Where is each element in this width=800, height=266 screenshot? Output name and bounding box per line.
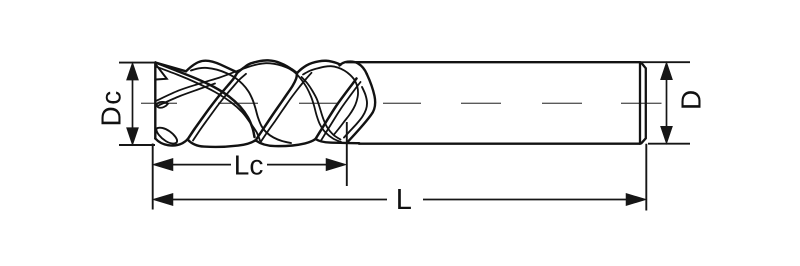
- gash triangle at left end: [156, 64, 167, 79]
- bottom-left oval lip gash: [156, 128, 177, 144]
- flute back edge pair from corner (inner): [156, 67, 260, 141]
- flute section silhouette: [155, 61, 375, 147]
- runout tail down to bottom: [347, 74, 375, 142]
- svg-text:L: L: [396, 184, 412, 216]
- long land line partner: [159, 84, 216, 106]
- long land line under crest 2 descending to cusp: [157, 63, 342, 142]
- dimension Lc: arrow line: [155, 159, 345, 170]
- bottom scallop arc 2: [188, 139, 256, 147]
- dimension Dc: extension lines: [119, 63, 155, 145]
- flute helix curves: [155, 60, 367, 143]
- rising band 4 outer: [316, 79, 357, 140]
- gash teardrop curl: [157, 102, 168, 108]
- land descent partner at cusp 3: [302, 77, 341, 140]
- bottom scallop arc 4: [316, 139, 360, 143]
- shank top edge: [347, 61, 641, 63]
- dimension Dc: double arrow: [127, 64, 137, 144]
- shank bottom edge: [359, 143, 640, 145]
- dimension L: arrow line: [155, 194, 645, 205]
- flute back edge pair from corner (outer): [155, 63, 254, 138]
- rising band 2 outer: [188, 73, 238, 140]
- crest 2 arc: [237, 60, 297, 73]
- rising band 3 inner: [261, 73, 312, 142]
- crest 1 arc: [186, 61, 238, 73]
- L right extension line: [645, 144, 647, 211]
- dimension D: extension lines: [641, 62, 690, 144]
- centerline (dashed axis): [141, 102, 662, 104]
- dimension D: double arrow: [661, 64, 671, 143]
- Lc right extension line: [346, 122, 348, 186]
- rising band 4 inner: [321, 82, 361, 141]
- crest 3 arc: [297, 61, 341, 73]
- top corner diagonal to first notch: [155, 63, 186, 72]
- bottom scallop arc 3: [256, 139, 316, 146]
- shank end face with chamfer corners: [641, 63, 646, 144]
- land margin under crest 1 descending: [191, 68, 291, 143]
- land margin under crest 3 with inner hook: [303, 66, 358, 134]
- left end edge: [154, 63, 156, 139]
- rising band 2 inner: [193, 74, 246, 141]
- Lc/L left extension line: [152, 144, 154, 210]
- bottom scallop arc 1: [155, 139, 187, 146]
- rising band 3 outer: [256, 73, 298, 141]
- shank end chamfer circle edge: [639, 62, 641, 144]
- svg-text:Lc: Lc: [234, 150, 264, 181]
- flute runout dome (outer): [340, 62, 367, 74]
- svg-text:D: D: [676, 90, 707, 110]
- runout middle hook line: [344, 87, 367, 138]
- svg-text:Dc: Dc: [96, 89, 127, 126]
